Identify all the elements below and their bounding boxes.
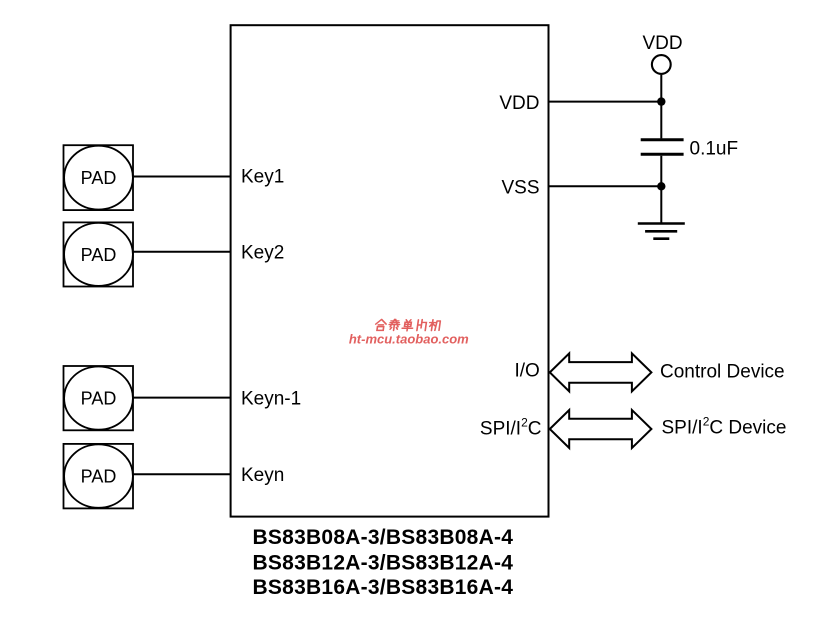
wire PAD2 to Key2 (133, 251, 231, 253)
touch pad PAD4 (64, 444, 134, 509)
svg-text:ht-mcu.taobao.com: ht-mcu.taobao.com (349, 332, 469, 347)
ground (638, 224, 685, 239)
svg-text:Key1: Key1 (241, 166, 284, 187)
bus arrow I/O to Control Device (550, 353, 652, 391)
svg-text:BS83B16A-3/BS83B16A-4: BS83B16A-3/BS83B16A-4 (253, 576, 514, 599)
wire VDD pin to node A (549, 101, 662, 103)
svg-text:VDD: VDD (642, 33, 682, 54)
touch pad PAD3 (64, 366, 134, 430)
svg-text:0.1uF: 0.1uF (690, 139, 739, 160)
svg-text:PAD: PAD (81, 245, 117, 265)
wire VDD circle down to capacitor (660, 75, 662, 138)
svg-text:SPI/I2C: SPI/I2C (480, 415, 542, 439)
svg-text:PAD: PAD (81, 389, 117, 409)
wire PAD4 to Keyn (133, 473, 231, 475)
svg-text:BS83B12A-3/BS83B12A-4: BS83B12A-3/BS83B12A-4 (253, 551, 514, 574)
bus arrow SPI/I2C to SPI/I2C Device (550, 410, 652, 448)
node B junction dot (657, 182, 665, 190)
wire capacitor to ground (660, 156, 662, 223)
power symbol VDD (642, 33, 682, 74)
wire VSS pin to node B (549, 185, 662, 187)
touch pad PAD1 (64, 145, 134, 210)
wire PAD1 to Key1 (133, 176, 231, 178)
capacitor C1 0.1uF (641, 140, 684, 155)
touch pad PAD2 (64, 222, 134, 286)
svg-text:I/O: I/O (514, 361, 539, 382)
svg-text:Keyn: Keyn (241, 465, 284, 486)
watermark (375, 319, 441, 330)
svg-text:Key2: Key2 (241, 242, 284, 263)
svg-text:Control Device: Control Device (660, 361, 785, 382)
svg-text:BS83B08A-3/BS83B08A-4: BS83B08A-3/BS83B08A-4 (253, 526, 514, 549)
svg-text:PAD: PAD (81, 467, 117, 487)
svg-text:VDD: VDD (499, 93, 539, 114)
svg-text:VSS: VSS (501, 177, 539, 198)
svg-text:Keyn-1: Keyn-1 (241, 388, 301, 409)
MCU block U1 (231, 25, 549, 516)
svg-text:PAD: PAD (81, 168, 117, 188)
node A junction dot (657, 97, 665, 105)
wire PAD3 to Keyn-1 (133, 397, 231, 399)
svg-text:SPI/I2C Device: SPI/I2C Device (662, 415, 787, 439)
